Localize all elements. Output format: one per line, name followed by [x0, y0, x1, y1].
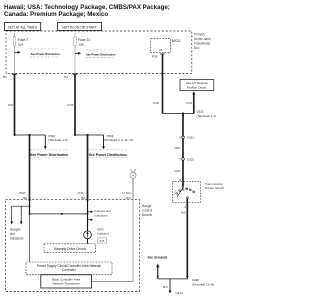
wire PNK from fuse 21 down [68, 74, 76, 136]
svg-text:(Terminals 1-6): (Terminals 1-6) [48, 138, 67, 142]
svg-text:Module: Module [142, 213, 153, 217]
svg-text:(Terminals 5, 6, 11, 12): (Terminals 5, 6, 11, 12) [104, 138, 133, 142]
svg-text:MICU: MICU [172, 39, 181, 43]
svg-text:10A: 10A [18, 43, 24, 47]
fuse F7 [13, 33, 28, 74]
svg-text:Gauge: Gauge [142, 204, 152, 208]
svg-text:and: and [10, 232, 16, 236]
svg-text:HOT AT ALL TIMES: HOT AT ALL TIMES [8, 26, 38, 30]
svg-text:PUR: PUR [153, 101, 159, 105]
fuse F21 [74, 33, 91, 74]
svg-text:Fuse 7: Fuse 7 [18, 38, 28, 42]
label: MFD Indicator [97, 227, 109, 235]
connector tick B4 (fuse box exit left) [3, 74, 17, 79]
warning drive circuit box (dashed) [44, 244, 96, 253]
B-CAN wire from transceiver to pin 10C [92, 199, 133, 281]
svg-text:Network Transceiver: Network Transceiver [53, 282, 80, 286]
svg-text:G1: G1 [64, 75, 68, 79]
svg-text:B4: B4 [3, 75, 7, 79]
label: See Power Distribution (left lower) [30, 150, 69, 158]
svg-text:+B: +B [159, 48, 163, 52]
svg-text:See Power Distribution: See Power Distribution [30, 153, 68, 157]
svg-text:Control: Control [142, 208, 153, 212]
wire PNK to gauge module [78, 135, 88, 200]
node/jog C513 (right) [74, 134, 133, 150]
label: Gauges and Indicators (left) [10, 227, 24, 240]
svg-text:Hawaii; USA: Technology Packag: Hawaii; USA: Technology Package, CMBS/PA… [4, 4, 170, 11]
svg-text:See Power Distribution: See Power Distribution [89, 153, 127, 157]
wire down to transmission range switch [182, 114, 184, 187]
svg-text:A: A [132, 174, 134, 178]
connector C621 inline [179, 136, 194, 140]
label: Primary Under-dash Fuse/Relay Box [194, 33, 211, 51]
svg-text:Box: Box [194, 46, 200, 50]
branch arrow to See Grounds [156, 264, 159, 279]
svg-text:BLK: BLK [181, 211, 186, 215]
svg-text:Under-dash: Under-dash [194, 37, 211, 41]
label: Gauge Control Module [142, 204, 153, 217]
internal bus wire between columns [30, 213, 88, 215]
svg-text:Gauges and: Gauges and [95, 209, 112, 213]
connector C198 [192, 278, 215, 286]
power supply circuit / CAN controller box (dashed) [26, 262, 112, 275]
svg-text:(Terminals 1-4): (Terminals 1-4) [197, 114, 216, 118]
svg-text:See Grounds: See Grounds [148, 255, 168, 259]
svg-text:Indicators: Indicators [95, 213, 109, 217]
HOT AT ALL TIMES header box [5, 23, 41, 31]
wire LT BLU to gauge module [122, 178, 133, 200]
HOT IN ON OR START header box [58, 23, 102, 31]
svg-text:LT BLU: LT BLU [122, 191, 131, 195]
ground bus wire [158, 278, 188, 280]
switch S1 contacts [175, 186, 195, 199]
svg-text:Position Circuit.: Position Circuit. [187, 85, 207, 89]
node C621 junction [182, 110, 216, 118]
MFD indicator lamp [84, 231, 92, 239]
svg-text:P28: P28 [152, 55, 158, 59]
wire lamp to warning drive circuit [87, 239, 89, 244]
stub wire PUR to A/T reverse circuit [186, 91, 195, 113]
svg-text:Controller: Controller [62, 268, 77, 272]
svg-text:10 C: 10 C [125, 196, 131, 200]
internal wire right column [87, 199, 89, 231]
svg-text:WHT: WHT [8, 103, 15, 107]
label: See Power Distribution (fuse 7) [30, 49, 61, 57]
primary under-dash fuse/relay box (dashed) [6, 31, 192, 74]
wire WHT from fuse 7 down [8, 74, 15, 136]
label: See Power Distribution (right lower) [89, 150, 127, 158]
node/jog C510 (left) [14, 134, 68, 150]
svg-text:Range Switch: Range Switch [205, 186, 224, 190]
wire from MICU P28 [160, 54, 164, 114]
svg-text:GRN: GRN [175, 146, 181, 150]
node A (option connector, gray) [130, 169, 136, 179]
svg-text:Fuse 21: Fuse 21 [78, 38, 90, 42]
svg-text:See Power Distribution: See Power Distribution [86, 53, 116, 57]
svg-text:G101: G101 [176, 291, 184, 295]
svg-text:C198: C198 [192, 278, 199, 282]
svg-text:WHT: WHT [19, 191, 26, 195]
svg-text:Canada: Premium Package; Mexic: Canada: Premium Package; Mexico [4, 11, 108, 18]
svg-text:2: 2 [192, 189, 193, 191]
svg-text:Gauges: Gauges [10, 227, 22, 231]
label: See Power Distribution (fuse 21) [86, 50, 116, 58]
svg-text:C102: C102 [187, 157, 194, 161]
svg-text:PNK: PNK [68, 103, 74, 107]
title [4, 4, 170, 18]
connector tick G1 (fuse box exit right) [64, 74, 77, 79]
svg-text:Warning Drive Circuit: Warning Drive Circuit [54, 247, 86, 251]
label: Transmission Range Switch [205, 182, 224, 190]
transmission range switch box (dashed) [172, 181, 200, 202]
svg-text:#15: #15 [100, 239, 105, 243]
entry arrow right (B1) [86, 200, 89, 203]
svg-text:Indicators: Indicators [10, 236, 24, 240]
entry arrow left (B2) [28, 200, 31, 203]
svg-text:10A: 10A [78, 43, 84, 47]
svg-text:Indicator: Indicator [97, 231, 109, 235]
svg-text:C621: C621 [187, 136, 194, 140]
branch arrow (second, right) [88, 219, 94, 221]
branch arrow to See Power Distribution (left) [15, 51, 21, 54]
connector C102 inline [179, 157, 194, 161]
branch to gauges and indicators (left) [10, 206, 29, 224]
wire PUR from MICU junction [153, 101, 194, 113]
svg-text:PUR: PUR [186, 101, 192, 105]
svg-text:Fuse/Relay: Fuse/Relay [194, 42, 211, 46]
wire WHT to gauge module [19, 135, 30, 200]
branch arrow to See Power Distribution (right) [75, 52, 81, 55]
svg-text:See Power Distribution: See Power Distribution [31, 52, 61, 56]
svg-text:BLK: BLK [163, 285, 168, 289]
svg-text:Primary: Primary [194, 33, 205, 37]
svg-text:HOT IN ON OR START: HOT IN ON OR START [62, 26, 96, 30]
bulb number box #15 [98, 238, 107, 243]
svg-text:(Terminals 13-24): (Terminals 13-24) [192, 283, 215, 287]
internal wire left column [29, 199, 31, 262]
branch arrow: gauges and indicators (right) [88, 209, 112, 218]
body CAN transceiver box [41, 275, 92, 288]
MICU box (dashed) [151, 39, 171, 53]
svg-text:PNK: PNK [78, 191, 84, 195]
svg-text:GRN: GRN [175, 169, 181, 173]
wire from range switch pin 4 [181, 198, 189, 279]
see A/T reverse position circuit box [180, 79, 214, 90]
gauge control module box (dashed) [6, 199, 140, 291]
ground G101 [163, 279, 183, 295]
